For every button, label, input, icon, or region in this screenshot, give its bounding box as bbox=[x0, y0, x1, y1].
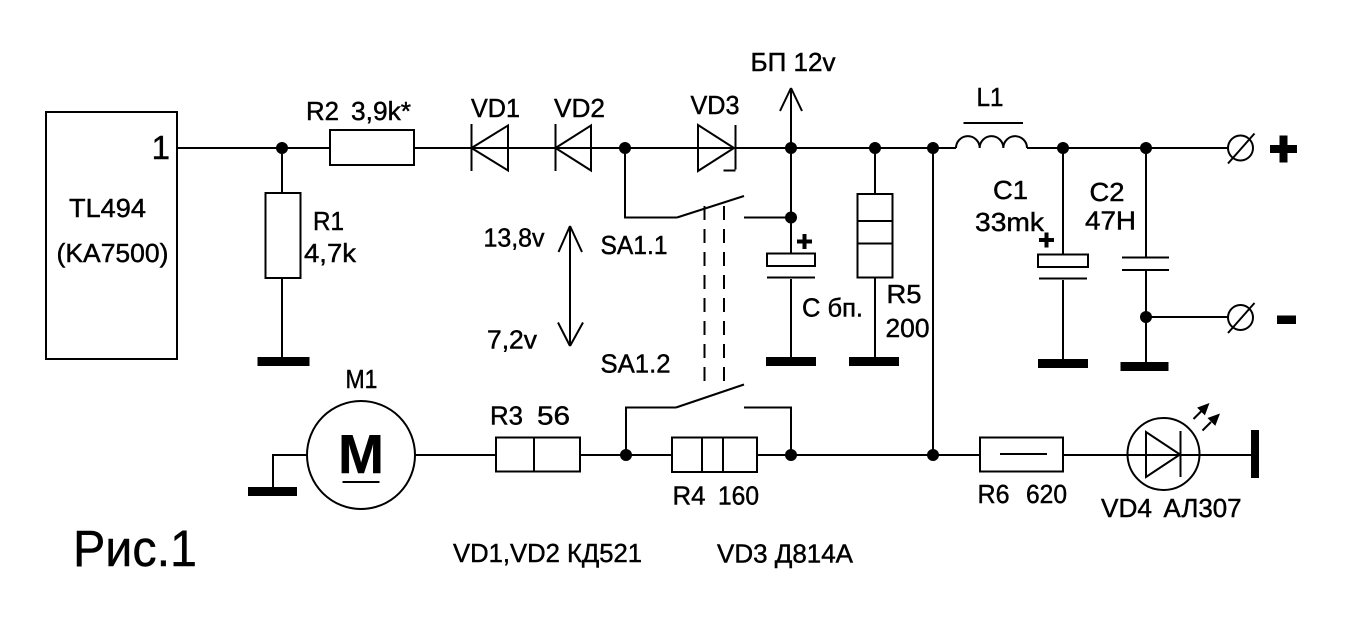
node C junction bbox=[785, 142, 797, 154]
svg-text:R3: R3 bbox=[490, 401, 523, 431]
svg-text:R2: R2 bbox=[306, 96, 339, 126]
svg-text:M1: M1 bbox=[346, 364, 378, 394]
LED VD4 bbox=[1128, 418, 1200, 490]
svg-text:3,9k*: 3,9k* bbox=[351, 96, 411, 126]
wire R1 to ground bbox=[281, 278, 283, 358]
svg-text:VD1: VD1 bbox=[471, 93, 520, 123]
minus output terminal bbox=[1228, 303, 1255, 333]
svg-text:33mk: 33mk bbox=[975, 207, 1045, 237]
svg-text:47H: 47H bbox=[1085, 206, 1136, 236]
wire C1 to ground bbox=[1062, 280, 1064, 360]
switch SA1.1 bbox=[625, 148, 791, 218]
svg-text:C2: C2 bbox=[1090, 177, 1125, 207]
svg-text:С бп.: С бп. bbox=[802, 293, 863, 323]
wire R5 to ground bbox=[874, 278, 876, 359]
svg-text:VD4: VD4 bbox=[1101, 493, 1152, 523]
wire node I to minus terminal bbox=[1146, 316, 1228, 318]
ground under C2 bbox=[1121, 362, 1169, 371]
wire C бп to ground bbox=[790, 279, 792, 358]
capacitor C1 wire from rail bbox=[1062, 148, 1064, 254]
svg-text:C1: C1 bbox=[993, 175, 1028, 205]
switch link dashed lines bbox=[705, 206, 725, 388]
wire bottom rail bbox=[273, 454, 1251, 456]
svg-text:TL494: TL494 bbox=[69, 193, 146, 223]
node B junction bbox=[619, 142, 631, 154]
wire node A to R1 bbox=[281, 148, 283, 193]
svg-text:56: 56 bbox=[537, 401, 570, 431]
svg-text:VD1,VD2 КД521: VD1,VD2 КД521 bbox=[453, 538, 642, 568]
node F junction bbox=[785, 212, 797, 224]
svg-text:VD3: VD3 bbox=[691, 90, 740, 120]
ground under R1 bbox=[258, 357, 310, 366]
ground under C1 bbox=[1038, 359, 1088, 368]
svg-text:13,8v: 13,8v bbox=[484, 223, 545, 253]
wire top rail bbox=[177, 147, 1228, 149]
diode VD3 zener bbox=[698, 125, 736, 171]
svg-text:VD2: VD2 bbox=[554, 93, 605, 123]
wire motor to ground bbox=[273, 455, 307, 488]
capacitor C2 wire from rail bbox=[1145, 148, 1147, 257]
node A junction bbox=[276, 142, 288, 154]
resistor R4 bbox=[672, 438, 757, 473]
wire C2 to node I bbox=[1145, 271, 1147, 317]
svg-text:R5: R5 bbox=[887, 279, 922, 309]
capacitor C бп electrolytic plus sign bbox=[797, 234, 812, 249]
label minus bbox=[1277, 316, 1296, 325]
range arrow double headed bbox=[558, 226, 583, 346]
motor M1 bbox=[307, 401, 415, 509]
svg-text:1: 1 bbox=[152, 129, 170, 166]
switch SA1.2 bbox=[626, 385, 791, 456]
svg-text:БП 12v: БП 12v bbox=[751, 47, 836, 77]
diode VD1 bbox=[472, 124, 509, 171]
node D junction bbox=[869, 142, 881, 154]
node J junction bbox=[620, 449, 632, 461]
capacitor C2 plates bbox=[1122, 258, 1169, 271]
svg-text:160: 160 bbox=[718, 481, 759, 511]
diode VD2 bbox=[556, 124, 592, 171]
svg-text:620: 620 bbox=[1026, 479, 1067, 509]
svg-text:(KA7500): (KA7500) bbox=[57, 238, 169, 268]
svg-text:SA1.1: SA1.1 bbox=[601, 230, 668, 260]
svg-text:VD3 Д814А: VD3 Д814А bbox=[717, 539, 854, 569]
LED VD4 light arrows bbox=[1194, 403, 1221, 431]
node I junction bbox=[1140, 311, 1152, 323]
capacitor C бп plates bbox=[767, 254, 815, 278]
svg-text:4,7k: 4,7k bbox=[304, 238, 357, 268]
svg-text:Рис.1: Рис.1 bbox=[73, 520, 197, 577]
svg-text:R6: R6 bbox=[978, 479, 1010, 509]
inductor L1 label line bbox=[964, 122, 1024, 124]
svg-text:M: M bbox=[338, 423, 384, 485]
svg-text:R4: R4 bbox=[673, 481, 706, 511]
terminal bar bbox=[1251, 430, 1259, 478]
IC U1 TL494 box bbox=[46, 112, 177, 359]
node K junction bbox=[785, 449, 797, 461]
power arrow БП 12v bbox=[780, 88, 802, 148]
resistor R5 bbox=[858, 194, 893, 278]
label plus bbox=[1270, 136, 1297, 163]
capacitor C1 plates bbox=[1038, 255, 1088, 279]
inductor L1 bbox=[956, 136, 1027, 148]
svg-text:7,2v: 7,2v bbox=[487, 325, 537, 355]
svg-text:200: 200 bbox=[886, 313, 930, 343]
ground at motor bbox=[248, 487, 297, 496]
resistor R6 bbox=[980, 438, 1063, 472]
svg-text:L1: L1 bbox=[977, 82, 1004, 112]
wire node D to R5 bbox=[874, 148, 876, 194]
svg-text:SA1.2: SA1.2 bbox=[601, 349, 671, 379]
node E junction bbox=[927, 142, 939, 154]
node G junction bbox=[1057, 142, 1069, 154]
node H junction bbox=[1140, 142, 1152, 154]
plus output terminal bbox=[1228, 134, 1255, 164]
svg-text:R1: R1 bbox=[313, 206, 344, 236]
resistor R3 bbox=[496, 438, 580, 472]
resistor R2 bbox=[330, 130, 414, 165]
resistor R1 bbox=[266, 193, 301, 278]
ground under C бп bbox=[766, 357, 816, 366]
ground under R5 bbox=[849, 357, 899, 366]
wire node C to C бп bbox=[790, 148, 792, 253]
node L junction bbox=[927, 449, 939, 461]
capacitor C1 plus sign bbox=[1039, 233, 1054, 248]
svg-text:АЛ307: АЛ307 bbox=[1164, 493, 1242, 523]
wire node E to node L (vertical) bbox=[932, 148, 934, 455]
wire node I to ground bbox=[1145, 317, 1147, 363]
